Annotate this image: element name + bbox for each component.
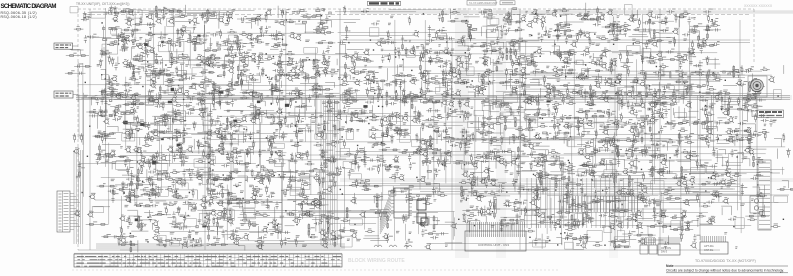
section box U532 <box>568 138 582 147</box>
value label <box>242 28 262 47</box>
value label <box>567 227 574 237</box>
resistor R4 <box>110 6 118 16</box>
resistor R627 <box>626 150 649 157</box>
wire <box>340 25 347 53</box>
resistor R742 <box>266 185 268 194</box>
value label <box>241 212 259 227</box>
transistor Q703 <box>622 169 628 175</box>
section box U883 <box>170 241 179 246</box>
capacitor C328 <box>312 88 332 108</box>
wire <box>478 124 504 150</box>
scan band <box>350 10 793 13</box>
wire <box>650 82 678 104</box>
transistor Q610 <box>481 153 504 165</box>
resistor R600 <box>433 152 449 167</box>
node <box>227 20 228 21</box>
node <box>483 58 484 59</box>
border bottom <box>78 249 720 251</box>
node <box>649 85 650 86</box>
node <box>266 137 267 138</box>
wire <box>566 193 568 205</box>
value label <box>552 210 577 223</box>
transistor Q680 <box>398 175 404 181</box>
value label <box>126 108 144 120</box>
transistor Q55 <box>599 10 619 30</box>
resistor R100 <box>382 30 404 49</box>
value label <box>599 188 626 200</box>
transistor Q482 <box>177 143 183 149</box>
capacitor C581 <box>278 154 281 162</box>
capacitor C588 <box>320 151 336 171</box>
value label <box>169 146 193 165</box>
wire <box>693 58 720 69</box>
capacitor C115 <box>540 30 552 42</box>
value label <box>504 108 531 122</box>
transistor Q582 <box>276 151 282 157</box>
capacitor C126 <box>660 29 668 32</box>
value label <box>627 127 647 141</box>
wire <box>315 110 345 131</box>
value label <box>585 47 602 62</box>
node <box>783 219 784 220</box>
capacitor C657 <box>196 168 209 190</box>
wire <box>716 149 744 166</box>
value label <box>123 9 142 22</box>
resistor R155 <box>242 54 261 63</box>
node <box>176 190 190 193</box>
wire <box>101 236 119 238</box>
wire <box>716 93 740 112</box>
resistor R527 <box>526 129 536 131</box>
capacitor C874 <box>114 235 116 238</box>
capacitor C705 <box>649 166 670 177</box>
wire <box>713 182 736 184</box>
transistor Q338 <box>401 97 407 103</box>
section box U886 <box>187 240 201 247</box>
node <box>535 13 536 14</box>
wire <box>415 106 439 123</box>
wire <box>367 131 386 147</box>
capacitor C220 <box>132 67 141 79</box>
value label <box>581 131 597 144</box>
capacitor C61 <box>648 10 674 31</box>
resistor R244 <box>317 65 338 77</box>
section box U260 <box>428 82 440 92</box>
value label <box>553 8 566 28</box>
node <box>664 157 671 159</box>
value label <box>196 130 211 144</box>
resistor R806 <box>169 206 179 228</box>
capacitor C163 <box>295 61 298 69</box>
capacitor C514 <box>425 140 433 143</box>
voltage chart <box>74 253 342 267</box>
value label <box>83 13 91 16</box>
wire <box>396 113 398 124</box>
wire <box>340 62 363 82</box>
value label <box>706 87 720 104</box>
capacitor C503 <box>334 130 354 144</box>
capacitor C895 <box>278 231 287 245</box>
wire <box>607 95 623 111</box>
transistor Q364 <box>576 89 596 97</box>
transistor Q199 <box>583 47 600 65</box>
value label <box>786 149 790 151</box>
resistor R887 <box>212 237 243 245</box>
value label <box>216 30 242 44</box>
wire <box>433 173 439 191</box>
resistor R852 <box>608 210 628 218</box>
resistor R843 <box>540 221 544 223</box>
component cluster <box>297 8 331 31</box>
value label <box>107 234 122 238</box>
transistor Q438 <box>488 123 494 129</box>
transistor Q113 <box>509 41 515 47</box>
node <box>721 109 722 110</box>
node <box>537 163 538 164</box>
resistor R833 <box>433 217 435 229</box>
ribbon cable <box>527 178 637 228</box>
value label <box>76 168 85 178</box>
resistor R708 <box>681 167 685 178</box>
value label <box>290 128 305 143</box>
transistor Q602 <box>440 151 451 167</box>
resistor R202 <box>621 52 644 68</box>
capacitor C677 <box>367 167 375 170</box>
capacitor C674 <box>339 166 351 178</box>
node <box>615 93 616 94</box>
capacitor C550 <box>724 130 738 141</box>
transistor Q562 <box>125 147 146 167</box>
transistor Q127 <box>651 41 657 47</box>
node <box>757 184 758 185</box>
wire <box>428 69 462 86</box>
wire <box>456 129 466 146</box>
capacitor C203 <box>641 56 644 64</box>
transistor Q321 <box>247 90 253 96</box>
wire <box>304 31 314 33</box>
resistor R642 <box>753 156 766 166</box>
node <box>466 199 467 200</box>
wire <box>149 5 158 19</box>
transistor Q507 <box>370 133 376 139</box>
resistor R116 <box>556 26 572 39</box>
resistor R50 <box>577 9 603 21</box>
section box U377 <box>684 85 692 95</box>
capacitor C618 <box>551 155 559 158</box>
transistor Q319 <box>214 86 220 92</box>
value label <box>319 9 330 22</box>
capacitor C432 <box>429 109 449 120</box>
value label <box>659 70 671 84</box>
resistor R872 <box>771 226 781 228</box>
value label <box>95 89 124 107</box>
IC U20 pin fan <box>380 192 391 234</box>
transistor Q144 <box>148 48 154 54</box>
transistor Q401 <box>198 111 204 117</box>
capacitor C39 <box>438 13 441 21</box>
capacitor C537 <box>604 138 619 143</box>
value label <box>652 167 669 170</box>
wire <box>679 15 681 27</box>
capacitor C394 <box>147 113 170 130</box>
capacitor C443 <box>528 118 531 126</box>
value label <box>648 9 675 24</box>
wire <box>118 30 141 41</box>
value label <box>695 149 718 164</box>
value label <box>601 29 621 43</box>
node <box>713 72 714 73</box>
section box U385 <box>747 94 756 104</box>
node <box>718 138 719 139</box>
resistor R121 <box>599 28 621 41</box>
wire <box>187 9 218 23</box>
value label <box>741 127 766 142</box>
node <box>266 53 275 57</box>
connector CN3 pin row <box>467 234 524 237</box>
wire <box>243 42 254 44</box>
connector CN8 <box>658 244 680 255</box>
value label <box>697 214 715 222</box>
section box U435 <box>467 110 483 127</box>
wire <box>284 169 316 183</box>
resistor R704 <box>650 167 663 177</box>
wire <box>647 214 671 226</box>
capacitor C594 <box>363 155 385 167</box>
wire <box>213 186 245 212</box>
node <box>87 156 88 157</box>
transistor Q308 <box>148 96 160 104</box>
capacitor C413 <box>285 120 304 128</box>
section box U835 <box>430 218 438 225</box>
wire <box>427 165 429 180</box>
value label <box>674 150 697 156</box>
transistor Q395 <box>163 115 169 121</box>
capacitor C368 <box>631 87 649 110</box>
resistor R254 <box>410 70 433 83</box>
resistor R38 <box>442 11 460 21</box>
wire <box>525 88 546 107</box>
resistor R546 <box>698 137 708 139</box>
capacitor C745 <box>296 192 304 195</box>
resistor R342 <box>428 100 439 102</box>
transistor Q420 <box>335 113 359 120</box>
transistor Q500 <box>316 132 336 148</box>
wire <box>602 17 626 28</box>
capacitor C446 <box>553 114 564 129</box>
node <box>132 42 133 43</box>
wire <box>285 109 300 127</box>
resistor R234 <box>240 67 263 87</box>
section box U675 <box>349 174 361 179</box>
transistor Q740 <box>251 190 258 200</box>
node <box>309 59 310 60</box>
node <box>633 43 634 44</box>
value label <box>560 27 576 41</box>
transistor Q236 <box>248 74 254 80</box>
wire <box>306 169 342 188</box>
value label <box>655 210 667 224</box>
transistor Q802 <box>119 215 125 221</box>
transistor Q450 <box>578 119 592 127</box>
capacitor C576 <box>221 152 238 168</box>
value label <box>601 129 616 143</box>
wire <box>224 111 244 131</box>
value label <box>289 12 311 22</box>
value label <box>783 186 786 188</box>
resistor R215 <box>106 83 116 85</box>
capacitor C466 <box>718 121 746 125</box>
wire <box>93 133 124 145</box>
resistor R849 <box>578 205 594 228</box>
transistor Q341 <box>420 93 426 99</box>
wire <box>210 178 233 181</box>
value label <box>649 49 674 64</box>
wire <box>649 17 651 35</box>
transistor Q541 <box>629 127 635 133</box>
capacitor C298 <box>744 68 754 73</box>
capacitor C33 <box>325 15 328 23</box>
resistor R698 <box>599 173 622 185</box>
wire <box>579 164 601 166</box>
transistor Q296 <box>736 80 742 86</box>
section box U77 <box>159 42 171 52</box>
node <box>585 64 586 65</box>
resistor R166 <box>313 56 329 69</box>
value label <box>387 48 408 66</box>
resistor R793 <box>757 195 767 197</box>
node <box>633 15 634 16</box>
value label <box>551 150 573 164</box>
transistor Q14 <box>147 14 162 25</box>
capacitor C449 <box>577 127 580 129</box>
transistor Q182 <box>443 48 449 54</box>
capacitor C242 <box>285 73 287 76</box>
wire <box>276 74 292 91</box>
wire <box>197 209 217 235</box>
node <box>144 41 164 46</box>
capacitor C885 <box>190 239 202 247</box>
value label <box>579 109 597 123</box>
node <box>257 101 261 104</box>
value label <box>408 17 410 19</box>
resistor R142 <box>145 59 157 67</box>
node <box>442 164 443 165</box>
value label <box>338 228 361 241</box>
value label <box>240 67 265 80</box>
resistor R821 <box>287 213 309 216</box>
connector CN7 pins <box>641 238 655 245</box>
section box U81 <box>169 28 194 52</box>
value label <box>417 176 425 181</box>
wire <box>617 119 648 125</box>
wire <box>144 153 171 173</box>
transistor Q247 <box>341 68 360 86</box>
wire <box>272 141 286 164</box>
capacitor C481 <box>167 128 186 140</box>
value label <box>245 234 267 244</box>
resistor R753 <box>391 191 395 193</box>
transistor Q170 <box>352 52 358 58</box>
wire <box>168 5 198 22</box>
value label <box>479 188 504 202</box>
wire bundle <box>321 100 337 245</box>
capacitor C266 <box>480 74 492 91</box>
section box U476 <box>122 133 135 141</box>
value label <box>393 189 410 196</box>
wire <box>721 183 742 215</box>
section box U796 <box>774 196 788 203</box>
wire <box>505 112 525 131</box>
value label <box>504 149 526 164</box>
resistor R634 <box>676 148 699 157</box>
capacitor C699 <box>605 174 613 177</box>
section box U526 <box>504 128 519 138</box>
value label <box>364 187 382 200</box>
value label <box>505 11 528 19</box>
wire <box>149 85 161 105</box>
resistor R732 <box>192 188 220 198</box>
resistor R91 <box>271 34 287 48</box>
wire <box>123 129 149 145</box>
bus wire <box>450 139 745 141</box>
resistor R522 <box>480 132 503 145</box>
node <box>147 61 167 66</box>
capacitor C410 <box>278 116 280 119</box>
node <box>485 89 486 90</box>
value label <box>678 227 701 242</box>
resistor R334 <box>366 87 381 98</box>
value label <box>220 10 236 25</box>
node <box>268 210 287 226</box>
wire <box>153 26 168 39</box>
value label <box>600 89 623 102</box>
capacitor C558 <box>96 155 109 165</box>
capacitor C640 <box>731 149 734 157</box>
value label <box>264 227 291 241</box>
section box U700 <box>604 170 617 178</box>
resistor R726 <box>144 189 159 198</box>
resistor R771 <box>563 192 578 207</box>
value label <box>386 73 405 86</box>
resistor R330 <box>343 90 356 105</box>
svg-text:RSQ-0606-18 (1/2): RSQ-0606-18 (1/2) <box>1 15 37 19</box>
resistor R768 <box>535 189 547 197</box>
wire <box>210 49 243 69</box>
transistor Q24 <box>218 13 233 23</box>
wire <box>631 143 648 172</box>
capacitor C909 <box>430 232 443 239</box>
resistor R673 <box>336 166 358 188</box>
section box U464 <box>702 121 716 129</box>
wire <box>483 73 507 84</box>
wire <box>269 230 291 239</box>
resistor R735 <box>216 192 242 204</box>
wire <box>697 24 721 49</box>
capacitor C478 <box>144 130 169 143</box>
section box U563 <box>116 161 130 169</box>
value label <box>483 149 504 158</box>
value label <box>674 11 696 19</box>
section box U574 <box>194 156 215 167</box>
transistor Q274 <box>545 84 551 90</box>
capacitor C137 <box>114 62 117 70</box>
wire <box>691 72 716 78</box>
node <box>142 86 143 87</box>
resistor R468 <box>741 109 756 122</box>
value label <box>384 32 407 41</box>
section box U869 <box>735 218 744 229</box>
transistor Q271 <box>520 68 526 74</box>
